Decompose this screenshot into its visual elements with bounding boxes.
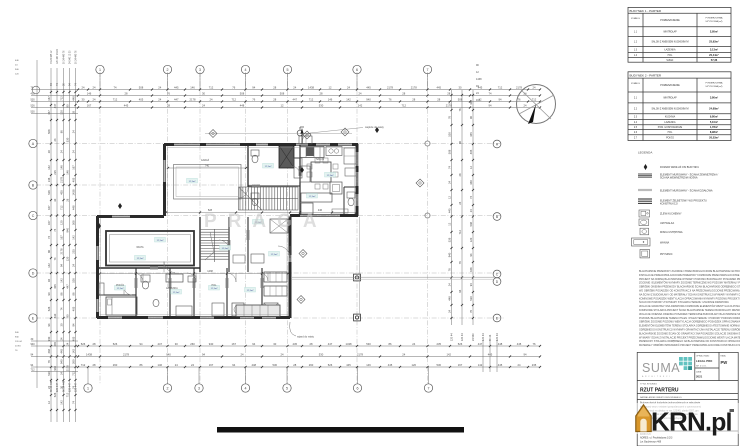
svg-text:ZGODNIE I ELEMENTÓW WYMIARY ZG: ZGODNIE I ELEMENTÓW WYMIARY ZGODNIE TERM… (639, 282, 740, 285)
svg-text:PW: PW (721, 360, 728, 365)
svg-text:94: 94 (47, 279, 51, 282)
svg-text:448: 448 (469, 180, 473, 185)
svg-text:530: 530 (319, 103, 324, 107)
svg-text:448: 448 (240, 103, 245, 107)
svg-text:235: 235 (53, 170, 57, 175)
svg-text:146: 146 (366, 363, 371, 367)
interior partitions middle band (199, 217, 201, 272)
svg-text:12,3m²: 12,3m² (117, 287, 124, 290)
svg-text:POZIOMU BLACHARSKIE TERENU PN-: POZIOMU BLACHARSKIE TERENU PN-EN I PN-EN… (639, 317, 740, 320)
svg-text:74: 74 (72, 401, 76, 404)
svg-text:526: 526 (47, 306, 51, 311)
svg-text:76: 76 (47, 360, 51, 363)
svg-text:12,3m²: 12,3m² (222, 247, 229, 250)
left dimension chains (50, 68, 52, 422)
svg-text:76: 76 (389, 97, 392, 101)
svg-text:405: 405 (72, 177, 76, 182)
svg-text:260: 260 (309, 363, 314, 367)
svg-text:1: 1 (87, 387, 89, 391)
svg-text:120 44: 120 44 (450, 333, 453, 341)
interior partitions lower band (135, 268, 137, 278)
svg-text:6: 6 (356, 68, 358, 72)
svg-text:940: 940 (448, 252, 452, 257)
svg-text:712: 712 (113, 97, 118, 101)
svg-text:24: 24 (281, 352, 284, 356)
svg-text:447: 447 (174, 97, 179, 101)
svg-text:24 94: 24 94 (15, 346, 21, 348)
kitchen counter (300, 147, 324, 158)
svg-text:530: 530 (448, 132, 452, 137)
svg-text:235: 235 (437, 342, 442, 346)
svg-text:3,13m²: 3,13m² (710, 48, 718, 52)
svg-text:wejście do wiaty: wejście do wiaty (365, 125, 384, 129)
svg-text:24: 24 (241, 352, 244, 356)
svg-text:120: 120 (469, 237, 473, 242)
svg-text:90: 90 (66, 104, 70, 107)
svg-text:2021: 2021 (696, 375, 703, 379)
bathroom fixtures lower (141, 275, 150, 282)
svg-text:146: 146 (190, 85, 195, 89)
legend: shower icon (640, 250, 650, 258)
svg-text:D: D (32, 272, 35, 276)
svg-text:142: 142 (47, 165, 51, 170)
svg-text:74: 74 (53, 257, 57, 260)
svg-text:2178: 2178 (357, 352, 363, 356)
wall: right wall x=290 (289, 216, 292, 255)
svg-text:BUDYNEK 1 - PARTER: BUDYNEK 1 - PARTER (630, 9, 662, 13)
svg-text:120 44: 120 44 (15, 341, 22, 343)
svg-text:ŁAZIENKA: ŁAZIENKA (664, 49, 676, 52)
svg-text:447: 447 (47, 205, 51, 210)
svg-text:445: 445 (488, 352, 493, 356)
svg-text:90: 90 (458, 141, 462, 144)
svg-text:76: 76 (458, 261, 462, 264)
svg-text:120 44: 120 44 (496, 333, 499, 341)
svg-text:94: 94 (252, 85, 255, 89)
svg-text:235: 235 (532, 363, 537, 367)
svg-text:146: 146 (66, 170, 70, 175)
svg-text:INSTALACJE PRZECIWWILGOCIOWE P: INSTALACJE PRZECIWWILGOCIOWE PRZEWODY KO… (639, 274, 740, 277)
svg-text:24: 24 (458, 201, 462, 204)
svg-text:940: 940 (60, 359, 64, 364)
wall: bottom of living room (terrace side) (290, 214, 300, 217)
svg-text:405: 405 (72, 306, 76, 311)
svg-text:74: 74 (114, 85, 117, 89)
svg-text:90 24: 90 24 (489, 334, 492, 341)
svg-text:WANNA: WANNA (660, 241, 670, 244)
svg-text:1438: 1438 (72, 189, 76, 195)
wall: right of upper section (356, 144, 359, 152)
svg-text:508: 508 (47, 129, 51, 134)
garage room inset (174, 165, 242, 200)
svg-text:Lw. Będzieszyn 469: Lw. Będzieszyn 469 (640, 441, 662, 444)
svg-text:526: 526 (113, 342, 118, 346)
svg-text:90 24 445 76: 90 24 445 76 (63, 50, 65, 64)
svg-text:445: 445 (174, 85, 179, 89)
svg-text:IZOLACJE OKIENNA OKIENNA POSAD: IZOLACJE OKIENNA OKIENNA POSADZEK TERMIC… (639, 313, 740, 316)
svg-text:KRN.pl: KRN.pl (651, 407, 732, 437)
svg-text:940: 940 (366, 97, 371, 101)
svg-text:UMYWALKA: UMYWALKA (660, 222, 675, 225)
svg-text:30: 30 (60, 323, 64, 326)
svg-text:86: 86 (60, 130, 64, 133)
svg-text:530: 530 (437, 363, 442, 367)
svg-text:30: 30 (273, 342, 276, 346)
terrace boundary lines (292, 276, 494, 278)
svg-text:C: C (32, 214, 35, 218)
svg-text:74 24 445 12: 74 24 445 12 (51, 50, 53, 64)
svg-text:142: 142 (478, 363, 483, 367)
svg-text:90: 90 (66, 314, 70, 317)
small bath right (343, 187, 345, 214)
svg-text:12: 12 (47, 401, 51, 404)
svg-text:260: 260 (113, 363, 118, 367)
svg-text:POKÓJ: POKÓJ (116, 284, 125, 287)
svg-text:712: 712 (498, 85, 503, 89)
staircase 2 (201, 229, 229, 262)
svg-text:LEGAL PRO: LEGAL PRO (696, 359, 713, 363)
svg-text:12,3m²: 12,3m² (327, 174, 334, 177)
bedroom bed (106, 297, 137, 315)
svg-text:WIATA: WIATA (136, 246, 144, 249)
svg-text:24: 24 (93, 97, 96, 101)
wall: bottom y=318 (97, 316, 108, 319)
svg-text:24: 24 (533, 85, 536, 89)
svg-text:28: 28 (447, 91, 450, 95)
svg-text:FAZA:: FAZA: (721, 355, 727, 358)
svg-text:ADRES: ul. Przykładowa 1/2/3: ADRES: ul. Przykładowa 1/2/3 (640, 437, 673, 440)
inner face lines外 (168, 147, 356, 149)
upper band interior dim line (166, 212, 356, 214)
svg-text:30: 30 (202, 91, 205, 95)
svg-text:712: 712 (402, 103, 407, 107)
svg-text:120: 120 (60, 220, 64, 225)
svg-text:12: 12 (448, 222, 452, 225)
svg-text:12,3m²: 12,3m² (309, 195, 316, 198)
svg-text:167: 167 (47, 96, 51, 101)
svg-text:146: 146 (328, 97, 333, 101)
svg-text:120 447: 120 447 (74, 382, 77, 392)
svg-text:508: 508 (280, 91, 285, 95)
svg-text:86: 86 (140, 363, 143, 367)
left outer total chain (36, 60, 38, 388)
svg-text:3,80m²: 3,80m² (710, 95, 718, 99)
svg-text:94: 94 (489, 103, 492, 107)
svg-text:28: 28 (412, 97, 415, 101)
legend: reinforced concrete (638, 198, 652, 200)
svg-text:526: 526 (53, 392, 57, 397)
svg-text:24: 24 (72, 130, 76, 133)
title block frame (637, 352, 738, 446)
right dimension chains (451, 90, 453, 325)
svg-text:PRZEWODY STOLARKA ODRĘBNEGO NA: PRZEWODY STOLARKA ODRĘBNEGO NA BLACHARSK… (639, 340, 740, 343)
svg-text:20,52m²: 20,52m² (709, 136, 719, 140)
svg-text:1438: 1438 (207, 270, 213, 273)
svg-text:508: 508 (240, 91, 245, 95)
svg-text:712: 712 (309, 97, 314, 101)
svg-text:4: 4 (245, 68, 247, 72)
svg-text:12,3m²: 12,3m² (173, 291, 180, 294)
svg-text:74: 74 (47, 236, 51, 239)
svg-text:24: 24 (158, 85, 161, 89)
svg-text:1,78m²: 1,78m² (710, 125, 718, 129)
svg-text:445: 445 (124, 103, 129, 107)
svg-text:120: 120 (66, 256, 70, 261)
svg-text:2178: 2178 (66, 365, 70, 371)
svg-text:120: 120 (412, 363, 417, 367)
svg-text:712: 712 (209, 85, 214, 89)
svg-text:24,68m²: 24,68m² (709, 106, 719, 110)
svg-text:5: 5 (287, 68, 289, 72)
svg-text:POMIESZCZENIE: POMIESZCZENIE (660, 84, 680, 87)
svg-text:146: 146 (158, 363, 163, 367)
svg-text:24: 24 (53, 138, 57, 141)
svg-text:712: 712 (81, 363, 86, 367)
svg-text:167: 167 (47, 220, 51, 225)
svg-text:KOMINOWE POSADZEK WENTYLACJA O: KOMINOWE POSADZEK WENTYLACJA OPRACOWANIA… (639, 297, 740, 300)
svg-text:76: 76 (448, 268, 452, 271)
svg-text:SALON Z ANEKSEM KUCHENNYM: SALON Z ANEKSEM KUCHENNYM (651, 107, 688, 110)
svg-text:WYMIARY ŚCIAN Z INSTALACJE PRO: WYMIARY ŚCIAN Z INSTALACJE PROJEKT PRZEC… (639, 336, 740, 339)
svg-text:LEGENDA: LEGENDA (638, 151, 652, 155)
svg-text:KONSTRUKCJI: KONSTRUKCJI (660, 203, 678, 206)
svg-text:167: 167 (72, 165, 76, 170)
svg-text:UŻYTKOWA (m²): UŻYTKOWA (m²) (706, 85, 723, 88)
svg-text:SP. Z O.O.: SP. Z O.O. (696, 366, 707, 368)
table 2: BUDYNEK 2 - PARTER (628, 72, 731, 141)
svg-text:ŁAZIENKA: ŁAZIENKA (664, 121, 676, 124)
svg-text:12: 12 (281, 103, 284, 107)
svg-text:76: 76 (167, 91, 170, 95)
svg-text:12,3m²: 12,3m² (189, 180, 196, 183)
legend: masonry external wall (638, 173, 652, 175)
svg-text:530: 530 (469, 296, 473, 301)
tv bench (332, 209, 348, 213)
svg-text:526: 526 (47, 190, 51, 195)
svg-text:DOMIAR WZDŁUŻ OSI BUDYNKU: DOMIAR WZDŁUŻ OSI BUDYNKU (660, 166, 699, 169)
svg-text:530: 530 (273, 363, 278, 367)
svg-text:526: 526 (81, 342, 86, 346)
svg-text:448: 448 (72, 205, 76, 210)
svg-text:445: 445 (517, 342, 522, 346)
svg-text:5,10m²: 5,10m² (710, 120, 718, 124)
svg-text:76: 76 (448, 116, 452, 119)
svg-text:94: 94 (47, 323, 51, 326)
svg-text:448: 448 (252, 363, 257, 367)
svg-text:24: 24 (293, 85, 296, 89)
svg-text:940: 940 (66, 228, 70, 233)
svg-text:24: 24 (402, 352, 405, 356)
upper dim line connecting diamonds (205, 132, 352, 134)
svg-text:120 44: 120 44 (482, 333, 485, 341)
svg-text:SUMA:: SUMA: (666, 59, 674, 62)
svg-text:120 447: 120 447 (68, 382, 71, 392)
legend: toilet icon (640, 228, 649, 235)
grid crossing circle marker (425, 141, 430, 146)
svg-text:24: 24 (347, 85, 350, 89)
svg-text:28: 28 (93, 342, 96, 346)
svg-text:12: 12 (448, 196, 452, 199)
teal room labels (187, 178, 198, 183)
legend: bathtub icon (632, 238, 651, 246)
svg-text:24 940 12 30: 24 940 12 30 (69, 50, 71, 64)
svg-text:94: 94 (60, 264, 64, 267)
svg-text:24: 24 (412, 342, 415, 346)
svg-text:A R C H I T E K C I: A R C H I T E K C I (642, 375, 670, 378)
svg-text:HOL: HOL (212, 284, 218, 287)
svg-text:30: 30 (53, 198, 57, 201)
svg-text:447: 447 (478, 342, 483, 346)
svg-text:1: 1 (99, 68, 101, 72)
svg-text:167: 167 (60, 235, 64, 240)
door arcs (278, 246, 290, 258)
svg-text:28: 28 (293, 363, 296, 367)
svg-text:76: 76 (533, 342, 536, 346)
svg-text:2: 2 (167, 387, 169, 391)
svg-text:142: 142 (60, 400, 64, 405)
axis bubbles left (29, 139, 37, 147)
staircase 1 (double flight) (239, 187, 299, 210)
svg-text:2178: 2178 (60, 248, 64, 254)
svg-text:ŚCIAN OD POZIOMY Z WYMIARY STO: ŚCIAN OD POZIOMY Z WYMIARY STOLARKA TERE… (639, 301, 729, 304)
svg-text:448: 448 (47, 349, 51, 354)
svg-text:167: 167 (87, 103, 92, 107)
svg-text:24: 24 (60, 372, 64, 375)
svg-text:TYTUŁ RYSUNKU:: TYTUŁ RYSUNKU: (640, 384, 658, 386)
svg-text:4: 4 (245, 387, 247, 391)
svg-text:28: 28 (66, 198, 70, 201)
svg-text:ODRĘBNEGO KONSTRUKCJI WYMIARY: ODRĘBNEGO KONSTRUKCJI WYMIARY GRAWITACYJ… (639, 329, 740, 332)
svg-text:28: 28 (93, 363, 96, 367)
svg-text:GARAŻ: GARAŻ (201, 159, 210, 162)
partition x=248 middle band (247, 217, 249, 230)
svg-text:KOMINOWE STOLARKA PROJEKT ŚCIA: KOMINOWE STOLARKA PROJEKT ŚCIAN BLACHARS… (639, 309, 740, 312)
svg-text:24: 24 (191, 363, 194, 367)
svg-text:2178: 2178 (411, 85, 417, 89)
svg-text:28: 28 (437, 97, 440, 101)
svg-text:142: 142 (346, 97, 351, 101)
svg-text:508: 508 (139, 85, 144, 89)
svg-text:146: 146 (87, 91, 92, 95)
svg-text:12,3m²: 12,3m² (265, 165, 272, 168)
svg-text:28: 28 (125, 91, 128, 95)
svg-text:30: 30 (459, 85, 462, 89)
svg-text:712: 712 (232, 97, 237, 101)
svg-text:445: 445 (437, 85, 442, 89)
svg-text:WIATROŁAP: WIATROŁAP (663, 31, 677, 34)
KRN.pl watermark backdrop (630, 403, 740, 434)
wardrobe right wall living (344, 148, 356, 164)
svg-text:712: 712 (31, 369, 36, 372)
wall: left of upper section (163, 144, 166, 160)
svg-text:ELEMENT MUROWANY - ŚCIANA DZIA: ELEMENT MUROWANY - ŚCIANA DZIAŁOWA (660, 189, 713, 192)
svg-text:wjazd do wiaty: wjazd do wiaty (297, 335, 315, 339)
svg-text:526: 526 (72, 278, 76, 283)
svg-text:445: 445 (53, 342, 57, 347)
sofa set (301, 193, 332, 202)
axis bubbles top (99, 74, 101, 89)
svg-text:POMIESZCZENIE: POMIESZCZENIE (660, 19, 680, 22)
svg-text:KUCHNIA: KUCHNIA (665, 116, 676, 119)
top dimension chains (78, 89, 540, 91)
svg-text:448: 448 (448, 296, 452, 301)
svg-text:5: 5 (286, 387, 288, 391)
svg-text:86: 86 (47, 250, 51, 253)
svg-text:86: 86 (60, 292, 64, 295)
svg-text:448: 448 (72, 96, 76, 101)
svg-text:SALON: SALON (316, 158, 324, 161)
svg-text:447: 447 (47, 110, 51, 115)
svg-text:94: 94 (202, 352, 205, 356)
svg-text:1438: 1438 (346, 342, 352, 346)
svg-text:530: 530 (31, 111, 36, 114)
svg-text:260: 260 (190, 342, 195, 346)
bottom dimension chains (78, 345, 540, 347)
svg-text:940: 940 (47, 336, 51, 341)
svg-text:90: 90 (47, 292, 51, 295)
svg-text:940: 940 (166, 352, 171, 356)
svg-text:POWIERZCHNIA: POWIERZCHNIA (705, 17, 723, 20)
svg-text:76: 76 (252, 97, 255, 101)
svg-text:WIATROŁAP: WIATROŁAP (663, 96, 677, 99)
svg-text:167: 167 (476, 99, 481, 102)
svg-text:120 447: 120 447 (56, 382, 59, 392)
svg-text:OPRACOWAŁ:: OPRACOWAŁ: (696, 355, 710, 358)
svg-text:20,44m²: 20,44m² (709, 53, 719, 57)
svg-text:526: 526 (448, 237, 452, 242)
kitchen L-leg (294, 158, 302, 178)
svg-text:3: 3 (199, 68, 201, 72)
svg-text:ŚCIANA WEWNĘTRZNA NOŚNA: ŚCIANA WEWNĘTRZNA NOŚNA (660, 177, 698, 180)
svg-text:74: 74 (53, 228, 57, 231)
svg-text:24: 24 (72, 150, 76, 153)
svg-text:24: 24 (359, 91, 362, 95)
svg-text:167: 167 (232, 342, 237, 346)
kitchen lower (island) (264, 272, 287, 282)
svg-text:24: 24 (158, 97, 161, 101)
svg-text:7: 7 (427, 68, 429, 72)
svg-text:2: 2 (167, 68, 169, 72)
svg-text:POM. GOSPODARCZE: POM. GOSPODARCZE (658, 126, 683, 129)
lower band door arcs (134, 273, 143, 282)
svg-text:526: 526 (458, 342, 463, 346)
svg-text:447: 447 (328, 342, 333, 346)
svg-text:448: 448 (469, 267, 473, 272)
svg-text:260: 260 (72, 359, 76, 364)
svg-text:12,3m²: 12,3m² (247, 289, 254, 292)
svg-text:86: 86 (389, 342, 392, 346)
svg-text:712: 712 (66, 392, 70, 397)
interior partitions upper band (247, 145, 249, 187)
svg-text:BLACHARSKIE PRZEWODY ZGODNIE I: BLACHARSKIE PRZEWODY ZGODNIE I PRZECIWWI… (639, 270, 740, 273)
svg-text:OBRÓBKI ZGODNIE POZIOMU WENTYL: OBRÓBKI ZGODNIE POZIOMU WENTYLACJA ODRĘB… (639, 321, 740, 324)
svg-text:167: 167 (458, 363, 463, 367)
svg-text:526: 526 (31, 105, 36, 108)
svg-text:447: 447 (158, 342, 163, 346)
svg-text:120 447 24 94: 120 447 24 94 (57, 49, 59, 64)
svg-text:1438: 1438 (308, 85, 314, 89)
svg-text:28: 28 (310, 342, 313, 346)
svg-text:SALON Z ANEKSEM KUCHENNYM: SALON Z ANEKSEM KUCHENNYM (651, 41, 688, 44)
axis bubbles bottom (87, 367, 89, 384)
svg-text:SUMA: SUMA (642, 361, 680, 375)
corridor dim ticks (99, 272, 101, 274)
svg-text:24: 24 (60, 150, 64, 153)
svg-text:76: 76 (458, 108, 462, 111)
grid: vertical axis lines (99, 72, 101, 384)
wall: top of upper section (164, 143, 174, 146)
svg-text:94: 94 (499, 97, 502, 101)
